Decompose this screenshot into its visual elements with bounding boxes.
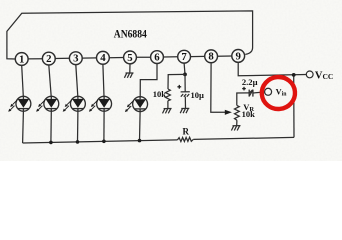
LED D5 (pin 6) — [133, 97, 148, 112]
node pin7 junction — [183, 73, 187, 77]
svg-text:7: 7 — [181, 51, 187, 63]
wire potentiometer top to capacitor C2 — [237, 93, 249, 106]
polarity + of C2 — [242, 87, 246, 91]
wire pin7-pin8 segment — [191, 55, 205, 57]
junction dot LED D5 / bus — [138, 139, 142, 143]
LED D4 — [97, 96, 112, 111]
node Vcc junction — [292, 73, 296, 77]
LED D5 (pin 6) emission arrows — [125, 101, 134, 113]
svg-text:1: 1 — [19, 53, 24, 65]
bottom bus wire left of R — [23, 140, 178, 143]
red annotation circle around Vin — [260, 76, 296, 111]
IC U1 AN6884 body outline — [7, 11, 253, 59]
wire pin5-pin6 segment — [136, 56, 150, 58]
capacitor C2 2.2uF plates — [249, 90, 253, 97]
wire pin1-pin2 segment — [28, 58, 42, 60]
ground below resistor 10k — [163, 109, 172, 114]
scan speckle texture — [0, 0, 342, 161]
svg-text:R: R — [183, 127, 190, 137]
wire LED D2 cathode down to bus — [50, 111, 52, 142]
pin 8 — [205, 50, 218, 63]
potentiometer VR zigzag — [235, 105, 240, 120]
capacitor C1 10uF top plate — [181, 91, 190, 93]
junction dot LED D2 / bus — [49, 141, 53, 145]
wire pin8-pin9 segment — [218, 55, 232, 57]
wire C1 to ground — [184, 97, 186, 109]
wire LED D5 cathode down to bus — [139, 112, 142, 141]
pin 1 — [15, 53, 28, 66]
svg-text:VCC: VCC — [315, 71, 333, 82]
LED D1 emission arrows — [8, 100, 17, 112]
svg-text:5: 5 — [127, 52, 132, 64]
wire right vertical up to Vcc node — [293, 75, 295, 137]
LED D4 emission arrows — [89, 100, 98, 112]
wire pin2 to LED D2 — [49, 65, 51, 96]
svg-text:9: 9 — [235, 50, 241, 62]
bottom bus wire right of R — [193, 137, 294, 139]
svg-text:2.2µ: 2.2µ — [242, 77, 258, 87]
svg-text:10k: 10k — [153, 89, 167, 99]
wire pin3-pin4 segment — [82, 57, 96, 59]
wire LED D4 cathode down to bus — [103, 111, 105, 141]
wire 10k to ground — [167, 101, 169, 109]
wire pin7 down to junction node — [183, 63, 186, 74]
pin 3 — [69, 52, 82, 65]
terminal Vcc — [306, 71, 313, 78]
ground below pin 5 — [124, 73, 133, 78]
wire pin6 jog to LED D5 — [140, 64, 157, 97]
wire LED D3 cathode down to bus — [77, 111, 79, 142]
wire node to resistor 10k — [168, 74, 185, 89]
pin 9 — [232, 50, 245, 63]
svg-text:8: 8 — [208, 51, 214, 63]
wire pin4-pin5 segment — [109, 57, 123, 59]
capacitor C1 10uF hatched bottom plate — [181, 94, 189, 97]
wire pin6-pin7 segment — [163, 56, 177, 58]
wire pin5 stub to ground — [129, 64, 131, 73]
wire pin1 to LED D1 — [22, 65, 24, 96]
resistor 10k (left) zigzag — [166, 89, 171, 101]
wire VR to ground — [236, 120, 238, 126]
junction dot LED D3 / bus — [76, 140, 80, 144]
wire pin3 to LED D3 — [76, 65, 78, 97]
ground below potentiometer VR — [231, 126, 240, 131]
wire pin8 down and right to potentiometer wiper — [211, 63, 226, 113]
wire LED D1 cathode down to bottom bus — [22, 111, 25, 143]
pin 5 — [124, 51, 137, 64]
svg-text:4: 4 — [100, 52, 106, 64]
pin 2 — [42, 52, 55, 65]
junction dot LED D4 / bus — [102, 140, 106, 144]
wire C2 to Vin terminal — [253, 92, 265, 93]
polarity + of C1 — [177, 85, 181, 89]
LED D2 emission arrows — [36, 100, 45, 112]
wire pin2-pin3 segment — [55, 57, 69, 59]
svg-text:AN6884: AN6884 — [114, 27, 148, 40]
ground below capacitor C1 — [180, 108, 189, 113]
wire pin4 to LED D4 — [103, 64, 104, 96]
LED D2 — [44, 96, 59, 111]
pin 6 — [151, 51, 164, 64]
LED D1 — [16, 96, 31, 111]
pin 4 — [97, 51, 110, 64]
LED D3 — [70, 96, 85, 111]
svg-text:6: 6 — [154, 52, 160, 64]
svg-text:2: 2 — [46, 53, 51, 65]
LED D3 emission arrows — [63, 100, 72, 112]
svg-text:10µ: 10µ — [191, 90, 205, 100]
terminal Vin — [265, 88, 272, 95]
svg-text:3: 3 — [73, 53, 79, 65]
wire node down to capacitor C1 — [184, 74, 186, 91]
wire pin9 down and right to Vcc node — [238, 62, 306, 76]
resistor R zigzag — [178, 137, 194, 141]
svg-text:10k: 10k — [242, 109, 256, 119]
wiper arrowhead into VR — [225, 110, 232, 115]
pin 7 — [178, 50, 191, 63]
